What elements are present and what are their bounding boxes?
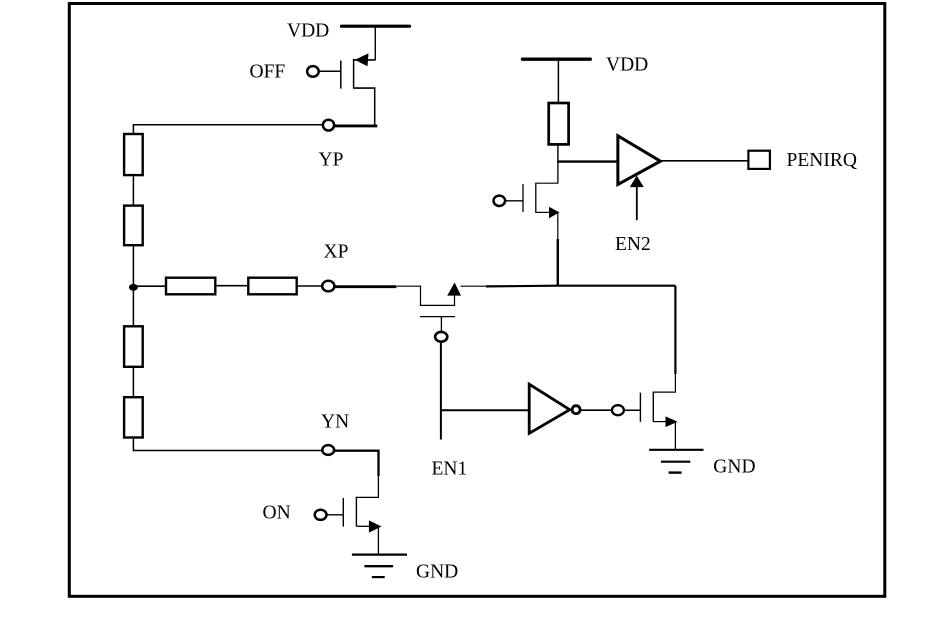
wire M2 source to output node (thin) [461,285,488,287]
svg-text:YN: YN [321,412,349,433]
pmos M4 source jog (bottom) [536,211,550,213]
wire M5 source to ground [377,526,379,554]
svg-text:OFF: OFF [250,62,286,83]
wire M4 gate lead [505,200,523,202]
terminal ON (circle) [315,510,327,520]
wire YP to resistor chain [133,125,322,134]
nmos M5 drain jog [356,496,379,498]
pmos M1 arrow (points left into channel) [355,53,369,66]
svg-text:GND: GND [713,457,755,478]
wire M5 gate lead [327,514,344,516]
resistor R2 [124,206,143,246]
svg-text:XP: XP [324,242,349,263]
pmos M4 drain jog (top) [536,182,559,184]
wire R1 to R2 [132,176,134,205]
terminal OFF (circle) [307,66,319,77]
inverter U2 (triangle) [529,384,570,433]
svg-text:VDD: VDD [606,55,648,76]
wire M4 drain up to node [557,162,559,184]
wire output node horizontal (thick) [486,285,675,288]
wire output node down to nmos M3 (thick) [674,286,676,374]
svg-text:ON: ON [263,503,291,524]
wire R6 to R7 [217,285,249,287]
wire M3 source to ground [674,422,676,450]
pmos M1 source jog [354,87,376,89]
nmos M3 arrow (points right) [666,416,678,427]
nmos M2 channel bar (horizontal) [420,304,455,306]
node XP (circle) [322,281,334,292]
wire R4 to YN [132,439,134,452]
svg-text:PENIRQ: PENIRQ [787,150,857,171]
wire terminal to M3 gate [624,409,641,411]
terminal circle at M3 gate [612,405,624,415]
resistor R6 (horizontal) [166,278,215,295]
wire EN2 arrow stem [636,186,638,220]
wire VDD rail to resistor R5 [557,59,559,103]
buffer U1 (triangle) [618,136,661,185]
resistor R3 [124,326,143,367]
svg-text:EN1: EN1 [432,459,468,480]
wire M4 source down to output wire (thick) [557,239,559,286]
wire M5 drain (thin) [377,476,379,497]
svg-text:GND: GND [416,562,458,583]
VDD power rail (right) [523,58,591,61]
pmos M1 gate bar [340,61,342,89]
nmos M3 gate bar [639,393,641,422]
wire M1 source down to YP [374,88,376,125]
ground symbol (right) [649,449,703,451]
wire node to buffer input [557,160,618,162]
pmos M4 channel bar [535,183,537,213]
wire VDD rail to M1 drain [374,26,376,60]
wire YN horizontal [133,450,322,452]
wire R2 to R3 [132,246,134,326]
VDD power rail (top-left) [342,25,410,28]
nmos M5 arrow (points right) [369,520,382,532]
wire R3 to R4 [132,368,134,397]
svg-text:VDD: VDD [287,21,329,42]
nmos M5 source jog [356,525,371,527]
nmos M3 drain jog [653,391,676,393]
wire bubble to M3 gate terminal [581,409,613,411]
node YP (circle) [323,120,334,131]
wire gate lead of M1 [319,70,341,72]
nmos M2 arrow (points up) [447,283,461,296]
node YN (circle) [322,445,334,455]
nmos M5 gate bar [342,498,344,527]
resistor R7 (horizontal) [248,278,296,295]
pmos M1 OFF-switch drain jog [354,59,376,61]
wire XP to pass nmos M2 (thick part) [335,285,396,288]
wire M2 gate lead down [440,317,442,332]
wire down to M3 drain (thin) [674,374,676,393]
resistor R5 (pull-up) [549,103,569,144]
wire EN1 to inverter input [441,409,529,411]
wire R5 to comparator node [557,145,559,161]
resistor R4 [124,397,143,437]
wire buffer output to PENIRQ pad [660,160,747,162]
svg-text:YP: YP [319,150,344,171]
wire tap to horizontal resistor R6 [133,285,166,287]
nmos M2 gate bar [420,316,455,318]
svg-text:EN2: EN2 [615,234,651,255]
pmos M1 channel bar [353,59,355,89]
wire YN to nmos M5 drain (thick) [334,451,378,476]
pmos M4 gate bar [522,184,524,212]
wire M4 source down (thin) [557,212,559,239]
terminal EN1 (circle) [435,332,447,342]
wire R7 to XP node [297,285,322,287]
nmos M2 pass transistor drain lead [420,286,422,306]
wire XP to pass nmos M2 (thin part) [397,285,422,287]
wire EN1 vertical [440,343,442,440]
wire YP node to M1 (thick) [334,124,377,127]
nmos M5 channel bar [355,497,357,527]
PENIRQ pad (square) [748,151,770,169]
nmos M3 source jog [653,421,667,423]
ground symbol (bottom) [352,553,407,555]
resistor R1 [124,134,143,175]
pmos M4 gate terminal (circle) [494,196,506,206]
pmos M4 arrow (points right) [549,207,559,218]
nmos M2 source lead up [454,287,456,305]
EN2 arrowhead (points up into buffer) [630,176,644,188]
junction node (dot) at XP tap [129,284,138,291]
nmos M3 channel bar [652,392,654,422]
inverter U2 output bubble [572,406,580,414]
